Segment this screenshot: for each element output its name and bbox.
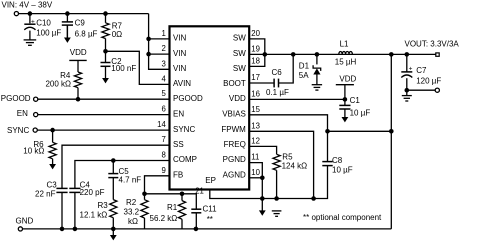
- wire COMP to C4: [75, 161, 170, 189]
- pin number 20: [251, 29, 260, 38]
- terminal VOUT return: [435, 88, 439, 92]
- wire pin18 stub: [249, 54, 265, 66]
- capacitor C9: [62, 14, 98, 39]
- svg-text:2: 2: [161, 44, 165, 53]
- svg-text:VDD: VDD: [339, 75, 356, 84]
- junction C4 rail: [73, 227, 78, 232]
- pin number 21: [195, 187, 204, 196]
- pin number 10: [251, 168, 260, 177]
- svg-text:EP: EP: [205, 176, 216, 185]
- resistor R1: [150, 194, 186, 229]
- pin label BOOT: [223, 79, 246, 88]
- terminal SYNC: [33, 128, 37, 132]
- wire VBIAS to VOUT: [328, 130, 392, 132]
- pin label AGND: [223, 171, 246, 180]
- wire SYNC: [37, 129, 169, 131]
- pin number 16: [251, 89, 260, 98]
- svg-text:10 µF: 10 µF: [350, 109, 371, 118]
- pin number 14: [157, 120, 166, 129]
- capacitor C10: [24, 14, 61, 40]
- svg-text:BOOT: BOOT: [223, 79, 246, 88]
- resistor R6: [23, 130, 56, 159]
- ground C1 arrow: [342, 109, 349, 122]
- note optional: [303, 213, 382, 222]
- svg-text:22 nF: 22 nF: [35, 189, 56, 198]
- svg-text:1: 1: [161, 29, 165, 38]
- wire VOUT drop: [390, 54, 392, 229]
- svg-text:7: 7: [161, 135, 165, 144]
- pin label PGOOD: [173, 94, 203, 103]
- pin number 15: [251, 105, 260, 114]
- wire pin2 stub: [149, 53, 170, 55]
- svg-text:D1: D1: [299, 62, 310, 71]
- pin label EN: [173, 109, 184, 118]
- svg-text:PGND: PGND: [223, 155, 246, 164]
- supply VDD left: [69, 48, 87, 72]
- svg-text:PGOOD: PGOOD: [1, 94, 31, 103]
- svg-text:SW: SW: [233, 49, 246, 58]
- junction C5 top: [111, 158, 116, 163]
- svg-text:12: 12: [251, 136, 260, 145]
- wire FB to R1 C11: [145, 194, 197, 209]
- pin number 19: [251, 44, 260, 53]
- svg-text:kΩ: kΩ: [128, 217, 138, 226]
- svg-text:PGOOD: PGOOD: [173, 94, 203, 103]
- terminal VIN: [14, 12, 18, 16]
- svg-text:VDD: VDD: [70, 48, 87, 57]
- svg-text:200 kΩ: 200 kΩ: [45, 80, 71, 89]
- svg-text:R2: R2: [126, 198, 137, 207]
- junction C7 return: [405, 88, 410, 93]
- svg-text:16: 16: [251, 89, 260, 98]
- wire AGND: [249, 178, 262, 199]
- svg-text:21: 21: [195, 187, 204, 196]
- node GND label: [16, 216, 34, 225]
- svg-text:COMP: COMP: [173, 155, 197, 164]
- pin label AVIN: [173, 79, 191, 88]
- junction bus pin1: [146, 37, 151, 42]
- svg-text:SYNC: SYNC: [173, 125, 195, 134]
- svg-text:VOUT: 3.3V/3A: VOUT: 3.3V/3A: [405, 40, 460, 49]
- pin number 12: [251, 136, 260, 145]
- junction C7 top: [405, 52, 410, 57]
- svg-text:8: 8: [161, 151, 165, 160]
- junction FPWM EP: [311, 196, 316, 201]
- node VIN label: [2, 1, 53, 10]
- pin number 18: [251, 56, 260, 65]
- capacitor C5: [108, 161, 141, 185]
- capacitor C1: [339, 96, 370, 118]
- pin label SW: [233, 64, 246, 73]
- pin label VIN: [173, 34, 187, 43]
- node SYNC label: [7, 126, 29, 135]
- svg-text:10 kΩ: 10 kΩ: [23, 146, 44, 155]
- wire pin20 stub: [249, 39, 265, 55]
- terminal GND: [18, 227, 22, 231]
- svg-text:VDD: VDD: [229, 94, 246, 103]
- svg-text:C3: C3: [47, 181, 58, 190]
- svg-text:33.2: 33.2: [124, 208, 140, 217]
- svg-text:15 µH: 15 µH: [335, 57, 357, 66]
- pin number 1: [161, 29, 165, 38]
- svg-text:C6: C6: [272, 68, 283, 77]
- svg-text:4: 4: [161, 74, 166, 83]
- wire SW line: [249, 53, 407, 55]
- ground R6 arrow: [49, 159, 56, 170]
- svg-text:R1: R1: [167, 203, 178, 212]
- svg-text:+: +: [31, 18, 35, 25]
- pin number 13: [251, 121, 260, 130]
- pin number 3: [161, 59, 165, 68]
- wire C8 bottom: [314, 166, 328, 199]
- node VOUT label: [405, 40, 460, 49]
- wire EP rail: [210, 190, 314, 199]
- pin number 2: [161, 44, 165, 53]
- pin label FB: [173, 171, 183, 180]
- svg-text:SYNC: SYNC: [7, 126, 29, 135]
- pin label VDD: [229, 94, 246, 103]
- junction VBIAS node: [325, 129, 330, 134]
- wire PGND: [249, 163, 262, 178]
- svg-text:4.7 nF: 4.7 nF: [119, 176, 142, 185]
- wire C7 bottom: [406, 78, 408, 90]
- svg-text:FPWM: FPWM: [221, 125, 246, 134]
- pin label VIN: [173, 49, 187, 58]
- wire FREQ: [249, 146, 276, 154]
- junction R6 top: [50, 128, 55, 133]
- wire FPWM: [249, 131, 313, 198]
- pin label FPWM: [221, 125, 246, 134]
- wire VIN rail: [19, 13, 149, 15]
- svg-text:C9: C9: [75, 18, 86, 27]
- junction C6 SW: [291, 52, 296, 57]
- junction R7 top: [103, 11, 108, 16]
- svg-text:AGND: AGND: [223, 171, 246, 180]
- pin number 9: [161, 166, 165, 175]
- pin number 7: [161, 135, 165, 144]
- svg-text:** optional component: ** optional component: [303, 213, 382, 222]
- capacitor C6: [249, 68, 289, 97]
- wire VOUT return: [407, 89, 435, 91]
- junction R4 PGOOD: [76, 97, 81, 102]
- pin label SW: [233, 49, 246, 58]
- junction C3 rail: [60, 227, 65, 232]
- junction R5 EP: [274, 196, 279, 201]
- pin label VBIAS: [222, 109, 246, 118]
- pin label COMP: [173, 155, 197, 164]
- junction L1 out: [389, 52, 394, 57]
- junction FB R2: [142, 192, 147, 197]
- svg-text:14: 14: [157, 120, 166, 129]
- svg-text:100 µF: 100 µF: [36, 29, 61, 38]
- svg-text:VIN: VIN: [173, 64, 187, 73]
- svg-text:10: 10: [251, 168, 260, 177]
- svg-text:L1: L1: [340, 40, 349, 49]
- terminal EN: [34, 113, 38, 117]
- junction VOUT drop: [389, 129, 394, 134]
- wire EN: [38, 114, 170, 116]
- capacitor C11: [191, 205, 217, 229]
- junction D1 SW: [315, 52, 320, 57]
- svg-text:SW: SW: [233, 34, 246, 43]
- svg-text:124 kΩ: 124 kΩ: [282, 161, 308, 170]
- junction C9 top: [65, 11, 70, 16]
- pin number 11: [251, 153, 259, 162]
- ground C2 arrow: [102, 66, 109, 83]
- svg-text:SS: SS: [173, 140, 184, 149]
- pin label EP: [205, 176, 216, 185]
- wire pin1 stub: [149, 38, 170, 40]
- diode D1: [299, 54, 321, 84]
- svg-text:SW: SW: [233, 64, 246, 73]
- svg-text:R3: R3: [98, 201, 109, 210]
- svg-text:0Ω: 0Ω: [112, 30, 122, 39]
- node EN label: [17, 109, 28, 118]
- capacitor C4: [69, 181, 104, 229]
- junction R3 rail: [111, 227, 116, 232]
- svg-text:15: 15: [251, 105, 260, 114]
- junction VDD C1: [343, 97, 348, 102]
- svg-text:11: 11: [251, 153, 259, 162]
- svg-text:100 nF: 100 nF: [111, 64, 136, 73]
- ground R5: [272, 211, 282, 216]
- svg-text:120 µF: 120 µF: [416, 77, 441, 86]
- junction C10 top: [28, 11, 33, 16]
- svg-text:EN: EN: [173, 109, 184, 118]
- capacitor C8: [322, 131, 352, 174]
- wire VIN bus to pins: [149, 14, 170, 70]
- svg-text:C7: C7: [416, 66, 427, 75]
- svg-text:6: 6: [161, 105, 165, 114]
- ground AGND arrow: [259, 199, 266, 216]
- svg-text:FREQ: FREQ: [224, 140, 246, 149]
- svg-text:EN: EN: [17, 109, 28, 118]
- pin label FREQ: [224, 140, 246, 149]
- capacitor C7: [401, 54, 441, 85]
- wire VBIAS: [249, 115, 327, 132]
- junction C2 top: [103, 49, 108, 54]
- terminal VOUT square: [407, 53, 439, 56]
- svg-text:5A: 5A: [299, 71, 309, 80]
- svg-text:220 pF: 220 pF: [80, 188, 105, 197]
- svg-text:19: 19: [251, 44, 260, 53]
- pin number 5: [161, 89, 166, 98]
- terminal PGOOD: [34, 97, 38, 101]
- svg-text:5: 5: [161, 89, 166, 98]
- svg-text:VIN: VIN: [173, 34, 187, 43]
- node PGOOD label: [1, 94, 31, 103]
- svg-text:6.8 µF: 6.8 µF: [75, 30, 98, 39]
- svg-text:VIN: 4V – 38V: VIN: 4V – 38V: [2, 1, 53, 10]
- wire C6 to SW: [279, 54, 294, 83]
- svg-text:C1: C1: [350, 96, 361, 105]
- svg-text:9: 9: [161, 166, 165, 175]
- svg-text:**: **: [207, 215, 213, 224]
- capacitor C2: [101, 51, 137, 73]
- wire GND rail: [23, 228, 392, 230]
- pin label PGND: [223, 155, 246, 164]
- ground R3 arrow: [110, 229, 117, 241]
- svg-text:20: 20: [251, 29, 260, 38]
- svg-text:17: 17: [251, 73, 260, 82]
- pin number 4: [161, 74, 166, 83]
- ground C10: [24, 40, 37, 45]
- wire SS to C3: [62, 145, 170, 188]
- pin number 17: [251, 73, 260, 82]
- wire PGOOD: [38, 98, 170, 100]
- svg-text:VBIAS: VBIAS: [222, 109, 246, 118]
- svg-text:56.2 kΩ: 56.2 kΩ: [150, 214, 178, 223]
- op-amp U1 body: [170, 26, 250, 189]
- svg-text:R5: R5: [282, 153, 293, 162]
- pin label SW: [233, 34, 246, 43]
- svg-text:0.1 µF: 0.1 µF: [266, 88, 289, 97]
- pin label SS: [173, 140, 184, 149]
- resistor R7: [102, 14, 123, 52]
- junction bus pin2: [146, 52, 151, 57]
- wire FB: [145, 176, 170, 194]
- svg-text:AVIN: AVIN: [173, 79, 191, 88]
- svg-text:C10: C10: [36, 19, 51, 28]
- wire AVIN: [106, 51, 170, 84]
- pin label SYNC: [173, 125, 195, 134]
- svg-text:C11: C11: [203, 205, 218, 214]
- pin number 6: [161, 105, 165, 114]
- pin number 8: [161, 151, 165, 160]
- svg-text:3: 3: [161, 59, 165, 68]
- ground D1: [312, 85, 322, 90]
- junction SW pins: [263, 52, 268, 57]
- junction AGND EP: [260, 196, 265, 201]
- svg-text:12.1 kΩ: 12.1 kΩ: [80, 210, 108, 219]
- resistor R2: [124, 194, 149, 229]
- resistor R3: [80, 178, 117, 229]
- svg-text:FB: FB: [173, 171, 183, 180]
- junction C11 rail: [194, 227, 199, 232]
- svg-text:VIN: VIN: [173, 49, 187, 58]
- svg-text:GND: GND: [16, 216, 34, 225]
- supply VDD right: [336, 75, 357, 100]
- svg-text:R7: R7: [112, 21, 123, 30]
- svg-text:10 µF: 10 µF: [332, 166, 353, 175]
- inductor L1: [335, 40, 357, 67]
- svg-text:13: 13: [251, 121, 260, 130]
- wire pin16 VDD: [249, 98, 345, 100]
- pin label VIN: [173, 64, 187, 73]
- resistor R4: [45, 71, 81, 99]
- svg-text:C8: C8: [332, 156, 343, 165]
- svg-text:18: 18: [251, 56, 260, 65]
- resistor R5: [273, 153, 307, 199]
- ground C9 arrow: [64, 26, 71, 43]
- junction R1 top: [180, 192, 185, 197]
- ground C7: [402, 90, 412, 101]
- junction PGND AGND: [260, 176, 265, 181]
- capacitor C3: [35, 181, 68, 229]
